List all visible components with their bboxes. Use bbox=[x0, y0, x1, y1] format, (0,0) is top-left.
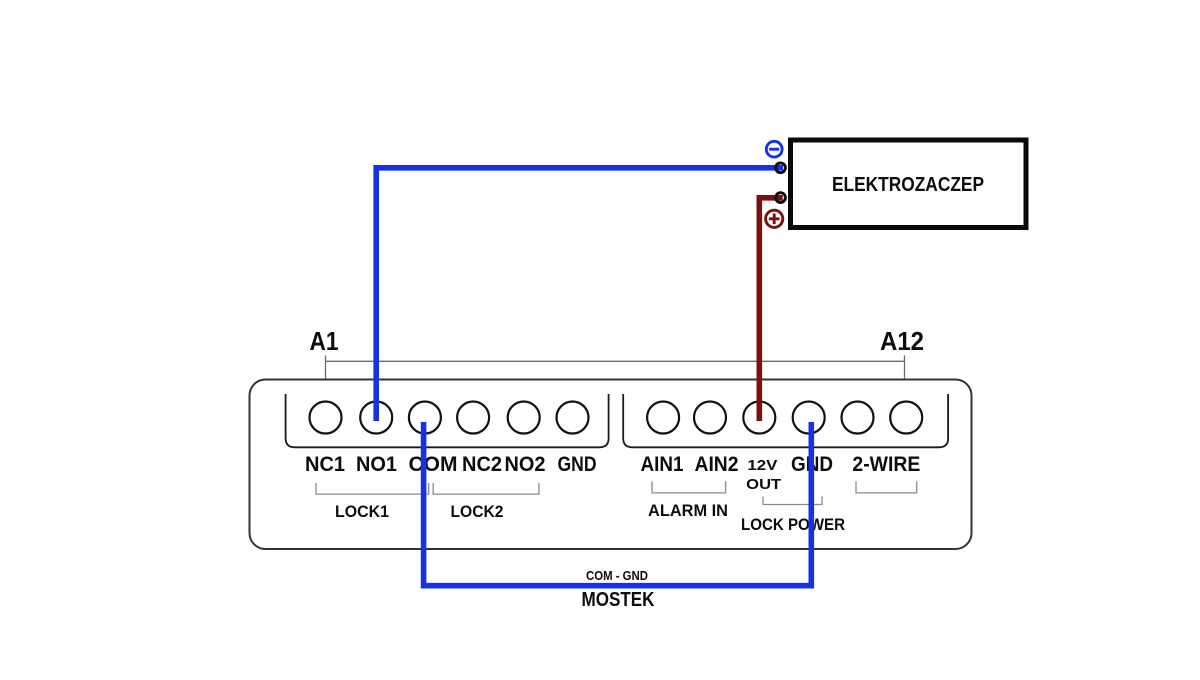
terminal NC1 bbox=[310, 402, 342, 434]
terminal group LOCK side (U container) bbox=[286, 394, 609, 447]
svg-text:COM: COM bbox=[409, 453, 458, 476]
bracket LOCK POWER bbox=[763, 497, 822, 505]
terminal NO1 bbox=[360, 402, 392, 434]
svg-text:2-WIRE: 2-WIRE bbox=[852, 453, 920, 476]
terminal COM bbox=[409, 402, 441, 434]
svg-text:AIN2: AIN2 bbox=[695, 453, 739, 476]
svg-text:LOCK POWER: LOCK POWER bbox=[741, 515, 845, 534]
bracket LOCK2 bbox=[433, 483, 539, 494]
svg-text:OUT: OUT bbox=[746, 476, 781, 493]
svg-text:NO2: NO2 bbox=[505, 453, 546, 476]
strike terminal dot upper bbox=[776, 163, 786, 173]
polarity minus symbol bbox=[766, 141, 782, 157]
terminal GND left bbox=[557, 402, 589, 434]
svg-text:LOCK2: LOCK2 bbox=[451, 502, 504, 521]
svg-text:ALARM IN: ALARM IN bbox=[648, 501, 728, 520]
terminal NC2 bbox=[457, 402, 489, 434]
svg-text:MOSTEK: MOSTEK bbox=[582, 589, 655, 611]
svg-text:ELEKTROZACZEP: ELEKTROZACZEP bbox=[832, 174, 984, 196]
terminal AIN2 bbox=[694, 402, 726, 434]
terminal 2-WIRE b bbox=[890, 402, 922, 434]
wire blue MOSTEK bridge COM to GND bbox=[424, 422, 812, 586]
svg-text:NO1: NO1 bbox=[356, 453, 397, 476]
bracket 2-WIRE bbox=[856, 481, 917, 493]
strike terminal dot lower bbox=[776, 193, 786, 203]
polarity plus symbol bbox=[766, 210, 783, 227]
terminal AIN1 bbox=[647, 402, 679, 434]
bracket ALARM IN bbox=[652, 481, 726, 493]
terminal 12V OUT bbox=[743, 402, 775, 434]
bracket LOCK1 bbox=[316, 483, 429, 494]
svg-text:A12: A12 bbox=[880, 326, 924, 356]
svg-text:NC2: NC2 bbox=[462, 453, 502, 476]
svg-text:AIN1: AIN1 bbox=[641, 453, 684, 476]
svg-text:GND: GND bbox=[558, 453, 597, 476]
wire dark red 12V OUT to strike plus terminal bbox=[759, 198, 782, 421]
terminal 2-WIRE a bbox=[842, 402, 874, 434]
svg-text:A1: A1 bbox=[310, 326, 339, 356]
svg-text:NC1: NC1 bbox=[305, 453, 345, 476]
svg-text:COM - GND: COM - GND bbox=[586, 568, 648, 583]
svg-text:LOCK1: LOCK1 bbox=[335, 502, 389, 521]
terminal group right side (U container) bbox=[623, 394, 948, 447]
svg-text:12V: 12V bbox=[747, 457, 777, 474]
terminal block body bbox=[250, 380, 972, 550]
terminal GND right bbox=[793, 402, 825, 434]
wire blue NO1 to strike minus terminal bbox=[376, 168, 783, 421]
A1-A12 span line bbox=[326, 356, 905, 380]
ELEKTROZACZEP box bbox=[791, 140, 1027, 228]
terminal NO2 bbox=[508, 402, 540, 434]
